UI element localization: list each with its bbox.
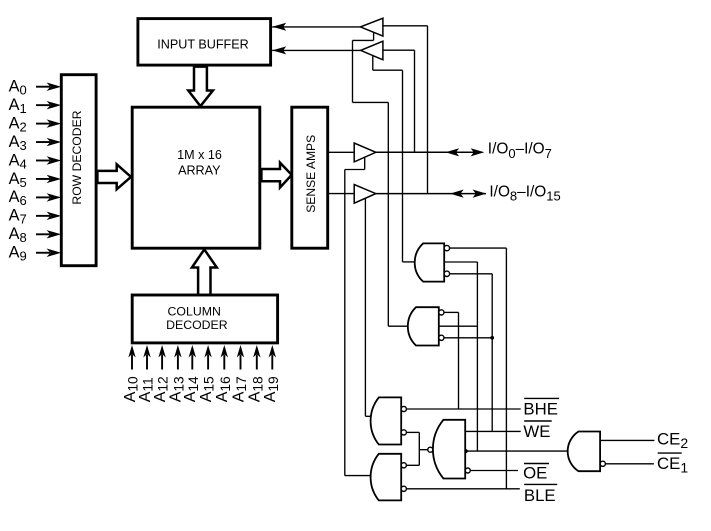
arrowhead A12 into COLUMN DECODER [158, 345, 165, 358]
wire U1 enable vertical upper [352, 40, 354, 102]
wire U3 enable stub [364, 157, 366, 169]
arrowhead A7 into ROW DECODER [47, 212, 62, 220]
svg-text:DECODER: DECODER [166, 318, 228, 332]
wire BLE net vertical [505, 248, 507, 489]
wire A9 lead [36, 252, 50, 254]
wire input-buffer line 2 (tri U2 output to INPUT BUFFER) [272, 49, 361, 51]
wire A4 lead [36, 160, 50, 162]
wire A14 lead [191, 355, 193, 370]
wire CE2 line [600, 439, 654, 441]
arrowhead A3 into ROW DECODER [47, 138, 62, 146]
arrowhead A16 into COLUMN DECODER [221, 345, 228, 358]
wire WE net vertical [491, 274, 493, 432]
arrowhead A10 into COLUMN DECODER [128, 345, 135, 358]
gate G2 bubble input bottom [439, 335, 444, 340]
wire G3 input 2 stub [406, 431, 419, 433]
wire G3 output stub [365, 415, 371, 417]
block COLUMN DECODER [132, 295, 277, 343]
wire CE net row (G6 output) [465, 450, 568, 452]
wire CE net vertical to G1 [476, 262, 478, 451]
gate G4 output bubble [428, 447, 433, 452]
block INPUT BUFFER [138, 19, 271, 66]
wire tri U1 feed vertical from I/O8-15 bus [427, 26, 429, 194]
wire G5 input 1 stub [406, 464, 419, 466]
gate G3 bubble input top [401, 406, 406, 411]
svg-text:ARRAY: ARRAY [178, 164, 221, 178]
overline CE1 [658, 452, 682, 454]
wire A15 lead [207, 355, 209, 370]
gate G4 bubble input OE [465, 468, 470, 473]
block 1M x 16 ARRAY [132, 107, 260, 248]
gate G5 (enable for U3) [371, 454, 402, 501]
wire tri U2 feed horizontal [383, 49, 415, 51]
wire A5 lead [36, 178, 50, 180]
block arrow ROW DECODER to ARRAY [97, 164, 131, 189]
wire G1 input top (from BLE net) [450, 247, 507, 249]
arrowhead A6 into ROW DECODER [47, 193, 62, 201]
overline BLE [524, 483, 557, 485]
wire A0 lead [36, 86, 50, 88]
arrowhead I/O8-15 left [450, 190, 464, 198]
wire tri U1 feed horizontal [383, 25, 428, 27]
svg-text:BLE: BLE [524, 486, 556, 505]
block ROW DECODER [61, 75, 96, 266]
overline OE [524, 463, 549, 465]
wire G5 output stub [345, 475, 371, 477]
wire input-buffer line 1 (tri U1 output to INPUT BUFFER) [272, 26, 360, 28]
arrowhead I/O8-15 right [473, 190, 487, 198]
gate G4 (write control) [433, 420, 465, 479]
gate G1 bubble input bottom [444, 271, 449, 276]
arrowhead A13 into COLUMN DECODER [174, 345, 181, 358]
block arrow INPUT BUFFER to ARRAY [188, 67, 213, 107]
arrowhead A15 into COLUMN DECODER [204, 345, 211, 358]
wire U2 enable jog horizontal [373, 69, 403, 71]
gate G5 bubble input bottom [401, 486, 406, 491]
wire OE row [470, 470, 518, 472]
wire G2 input top (from BHE row) [444, 311, 459, 313]
wire A19 lead [271, 355, 273, 370]
wire A12 lead [161, 355, 163, 370]
arrowhead A2 into ROW DECODER [47, 119, 62, 127]
svg-text:WE: WE [523, 422, 550, 441]
wire U3 enable jog [345, 169, 365, 171]
wire sense amps to tri U3 [328, 151, 355, 153]
wire A16 lead [223, 355, 225, 370]
wire A18 lead [256, 355, 258, 370]
gate G1 (enable for U2) [415, 243, 445, 281]
wire U2 enable stub [372, 56, 374, 71]
wire I/O8-15 bus line [376, 193, 486, 195]
arrowhead A1 into ROW DECODER [47, 101, 62, 109]
wire G2 input bottom (joins BHE net) [444, 337, 492, 339]
node junction CE net at G4 input [464, 449, 468, 453]
wire A13 lead [177, 355, 179, 370]
svg-text:1M x 16: 1M x 16 [177, 148, 222, 162]
arrowhead A17 into COLUMN DECODER [237, 345, 244, 358]
wire BHE row [406, 408, 520, 410]
arrowhead I/O0-7 left [446, 148, 460, 156]
block SENSE AMPS [292, 107, 328, 248]
svg-text:SENSE AMPS: SENSE AMPS [304, 135, 318, 213]
wire A8 lead [36, 233, 50, 235]
wire G4 output stub [419, 449, 428, 451]
wire CE1 line [605, 463, 654, 465]
wire WE row [465, 430, 521, 432]
wire U1 enable vertical lower [387, 102, 389, 326]
wire A10 lead [131, 355, 133, 370]
node junction G2.in3 to BHE net [490, 336, 494, 340]
gate G1 bubble input top [444, 245, 449, 250]
svg-text:INPUT BUFFER: INPUT BUFFER [157, 37, 248, 51]
wire A3 lead [36, 141, 50, 143]
wire G2 input mid (joins CE net) [439, 325, 478, 327]
wire G4 output net vertical [418, 432, 420, 465]
svg-text:OE: OE [523, 464, 547, 483]
wire U2 enable vertical [402, 70, 404, 262]
wire BHE tap vertical [458, 312, 460, 409]
buffer U2 (input buffer lower) [361, 41, 383, 60]
gate G2 bubble input top [439, 310, 444, 315]
arrowhead A18 into COLUMN DECODER [253, 345, 260, 358]
block arrow COLUMN DECODER to ARRAY [192, 249, 217, 295]
arrowhead A14 into COLUMN DECODER [189, 345, 196, 358]
wire U1 enable jog 2 [353, 101, 389, 103]
wire U1 enable stub [373, 32, 375, 40]
arrowhead A11 into COLUMN DECODER [143, 345, 150, 358]
wire sense amps to tri U4 [328, 193, 355, 195]
gate G6 (chip enable NAND) [568, 432, 600, 472]
wire tri U2 feed vertical from I/O0-7 bus [414, 50, 416, 152]
wire U1 enable jog horizontal [353, 39, 374, 41]
gate G5 bubble input top [401, 463, 406, 468]
svg-text:BHE: BHE [523, 400, 558, 419]
wire A11 lead [146, 355, 148, 370]
svg-text:COLUMN: COLUMN [168, 305, 221, 319]
wire I/O0-7 bus line [376, 151, 483, 153]
buffer U3 (output buffer I/O0-7) [354, 143, 376, 162]
arrowhead A4 into ROW DECODER [47, 156, 62, 164]
wire A6 lead [36, 196, 50, 198]
wire BLE row [406, 488, 519, 490]
gate G6 bubble input CE1 [600, 461, 605, 466]
arrowhead A9 into ROW DECODER [47, 249, 62, 257]
wire A7 lead [36, 215, 50, 217]
arrowhead A8 into ROW DECODER [47, 230, 62, 238]
overline WE [524, 420, 552, 422]
wire U4 enable vertical [364, 198, 366, 416]
gate G3 (enable for U4) [371, 397, 402, 444]
arrowhead I/O0-7 right [471, 148, 485, 156]
svg-text:ROW DECODER: ROW DECODER [70, 110, 84, 204]
wire A1 lead [36, 104, 50, 106]
block arrow ARRAY to SENSE AMPS [261, 163, 291, 188]
arrowhead into INPUT BUFFER line 1 [272, 23, 286, 31]
wire A2 lead [36, 123, 50, 125]
wire G1 input bottom (from WE net) [450, 273, 493, 275]
buffer U1 (input buffer upper) [360, 18, 383, 36]
arrowhead A19 into COLUMN DECODER [269, 345, 276, 358]
wire A17 lead [240, 355, 242, 370]
wire G2 output stub [388, 325, 408, 327]
overline BHE [524, 397, 559, 399]
svg-text:A19: A19 [262, 376, 281, 402]
buffer U4 (output buffer I/O8-15) [354, 185, 376, 204]
gate G3 bubble input bottom [401, 430, 406, 435]
gate G2 (enable for U1) [408, 307, 439, 345]
wire U3 enable vertical [344, 170, 346, 476]
arrowhead A0 into ROW DECODER [47, 83, 62, 91]
arrowhead A5 into ROW DECODER [47, 175, 62, 183]
wire G1 output stub [403, 261, 415, 263]
arrowhead into INPUT BUFFER line 2 [272, 46, 286, 54]
wire G1 input mid (from CE net) [444, 261, 477, 263]
